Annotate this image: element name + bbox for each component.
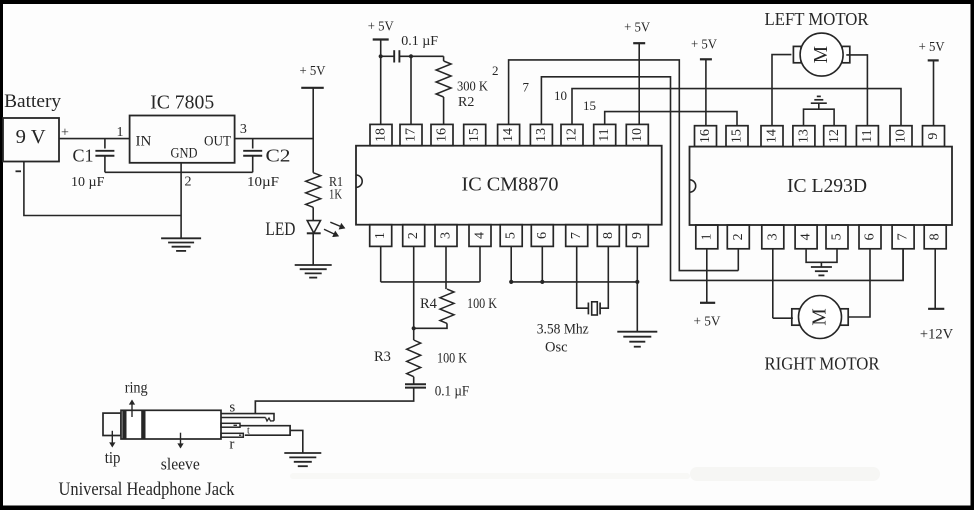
- svg-text:0.1 µF: 0.1 µF: [401, 34, 438, 49]
- svg-text:IC CM8870: IC CM8870: [462, 175, 559, 196]
- svg-text:13: 13: [796, 129, 811, 143]
- svg-text:100 K: 100 K: [437, 350, 467, 366]
- svg-text:+ 5V: + 5V: [691, 37, 717, 52]
- svg-text:LEFT MOTOR: LEFT MOTOR: [765, 9, 869, 29]
- svg-text:t: t: [247, 426, 250, 437]
- svg-text:+ 5V: + 5V: [919, 39, 945, 54]
- svg-text:10: 10: [894, 129, 909, 143]
- svg-text:300 K: 300 K: [457, 80, 488, 95]
- svg-text:15: 15: [583, 98, 596, 113]
- svg-text:7: 7: [896, 233, 911, 240]
- svg-text:12: 12: [565, 128, 580, 142]
- svg-text:3: 3: [240, 122, 247, 137]
- svg-text:2: 2: [185, 175, 192, 190]
- svg-text:s: s: [229, 400, 235, 416]
- svg-text:IN: IN: [136, 134, 152, 150]
- svg-text:Universal Headphone Jack: Universal Headphone Jack: [59, 479, 235, 500]
- svg-text:OUT: OUT: [204, 134, 231, 150]
- svg-text:2: 2: [492, 63, 499, 78]
- svg-text:13: 13: [534, 128, 549, 142]
- svg-text:2: 2: [731, 233, 746, 240]
- svg-text:8: 8: [928, 233, 943, 240]
- svg-text:10: 10: [554, 88, 567, 103]
- svg-text:11: 11: [597, 128, 612, 141]
- svg-text:12: 12: [827, 129, 842, 143]
- svg-text:14: 14: [765, 129, 780, 143]
- svg-text:+ 5V: + 5V: [624, 20, 650, 35]
- svg-text:1K: 1K: [329, 188, 342, 203]
- svg-text:+ 5V: + 5V: [368, 19, 394, 34]
- svg-text:GND: GND: [171, 146, 198, 162]
- svg-text:17: 17: [404, 128, 419, 142]
- svg-text:9 V: 9 V: [16, 127, 46, 148]
- svg-text:M: M: [811, 46, 832, 63]
- svg-text:18: 18: [374, 128, 389, 142]
- svg-text:7: 7: [523, 79, 530, 94]
- svg-text:3.58 Mhz: 3.58 Mhz: [537, 321, 590, 337]
- svg-text:0.1 µF: 0.1 µF: [435, 384, 470, 400]
- svg-text:C1: C1: [73, 146, 94, 166]
- svg-text:Battery: Battery: [4, 92, 62, 112]
- svg-text:M: M: [810, 308, 831, 325]
- svg-text:1: 1: [373, 232, 388, 239]
- svg-text:16: 16: [698, 129, 713, 143]
- svg-text:5: 5: [830, 233, 845, 240]
- svg-text:9: 9: [926, 133, 941, 140]
- svg-text:4: 4: [799, 233, 814, 240]
- svg-text:100 K: 100 K: [467, 296, 497, 312]
- svg-text:C2: C2: [266, 146, 291, 166]
- svg-text:RIGHT MOTOR: RIGHT MOTOR: [765, 354, 880, 374]
- svg-text:7: 7: [569, 232, 584, 239]
- svg-text:1: 1: [699, 233, 714, 240]
- svg-text:3: 3: [765, 233, 780, 240]
- svg-text:10: 10: [630, 128, 645, 142]
- svg-text:r: r: [229, 437, 234, 453]
- svg-text:R4: R4: [420, 296, 438, 312]
- svg-text:6: 6: [535, 232, 550, 239]
- svg-text:sleeve: sleeve: [161, 454, 200, 473]
- svg-text:+12V: +12V: [920, 326, 954, 342]
- svg-text:1: 1: [117, 125, 124, 140]
- svg-text:10µF: 10µF: [247, 175, 279, 190]
- svg-text:6: 6: [863, 233, 878, 240]
- svg-text:16: 16: [435, 128, 450, 142]
- svg-text:2: 2: [406, 232, 421, 239]
- svg-text:tip: tip: [105, 448, 121, 467]
- svg-text:4: 4: [473, 232, 488, 239]
- svg-text:Osc: Osc: [545, 340, 568, 356]
- svg-text:5: 5: [504, 232, 519, 239]
- svg-text:15: 15: [730, 129, 745, 143]
- svg-text:+ 5V: + 5V: [300, 63, 326, 78]
- svg-text:9: 9: [630, 232, 645, 239]
- svg-text:R3: R3: [374, 349, 391, 365]
- svg-text:10 µF: 10 µF: [71, 175, 105, 190]
- svg-text:IC 7805: IC 7805: [150, 91, 214, 113]
- svg-text:R2: R2: [458, 95, 474, 110]
- svg-text:8: 8: [601, 232, 616, 239]
- svg-text:ring: ring: [125, 380, 148, 397]
- svg-text:14: 14: [501, 128, 516, 142]
- svg-text:11: 11: [860, 129, 875, 142]
- svg-text:15: 15: [467, 128, 482, 142]
- svg-text:IC L293D: IC L293D: [787, 176, 867, 197]
- svg-text:LED: LED: [265, 219, 295, 240]
- svg-text:+ 5V: + 5V: [694, 314, 721, 329]
- svg-text:3: 3: [439, 232, 454, 239]
